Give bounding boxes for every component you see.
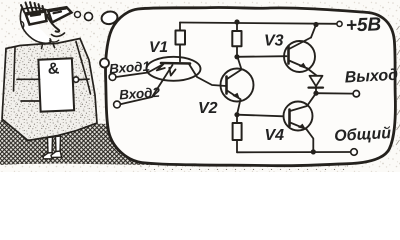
transistor V1 (multi-emitter) — [147, 57, 201, 81]
left leg — [48, 137, 53, 153]
thought bubble chain — [75, 10, 119, 25]
thought bubble (speech balloon) — [106, 7, 396, 165]
svg-text:Общий: Общий — [334, 125, 392, 145]
wire V3 collector to top rail — [311, 25, 316, 38]
transistor V3 — [284, 38, 315, 73]
left sleeve seam — [14, 48, 16, 92]
shadow speckles under bubble — [140, 158, 348, 170]
diode VD1 — [309, 76, 324, 93]
node A — [234, 54, 239, 59]
wire node B to V4 base — [237, 115, 284, 117]
head outline — [20, 9, 51, 43]
resistor R1 — [176, 23, 186, 62]
node D — [311, 149, 316, 154]
transistor V4 — [284, 102, 313, 131]
terminal output — [353, 91, 359, 97]
chin crease — [50, 40, 59, 42]
wire node C to V4 collector — [290, 93, 316, 111]
glasses brow shading — [27, 8, 66, 14]
neck — [42, 44, 55, 49]
hatch scratches right of bubble — [396, 26, 400, 145]
svg-text:V4: V4 — [265, 127, 285, 144]
glasses right lens — [48, 7, 72, 22]
wire node C to output terminal — [316, 92, 353, 94]
wire input1 to V1 emitter — [116, 64, 164, 77]
left foot — [43, 153, 53, 159]
hair — [21, 2, 44, 12]
logic gate on shirt — [38, 58, 74, 111]
gate inversion bubble — [73, 77, 78, 82]
resistor R3 — [233, 115, 242, 153]
terminal input 1 — [109, 74, 116, 81]
junction top rail / R2 — [234, 19, 239, 24]
wire bottom rail — [237, 151, 351, 153]
transistor V2 — [221, 69, 254, 102]
junction top rail / V3 — [313, 22, 318, 27]
svg-text:Выход: Выход — [344, 67, 398, 87]
resistor R2 — [232, 22, 241, 57]
svg-text:&: & — [47, 60, 60, 78]
eyes — [31, 12, 61, 16]
wire input2 to V1 emitter — [120, 65, 172, 104]
cartoon engineer — [2, 2, 97, 159]
glasses left lens — [26, 11, 47, 25]
wire V2 emitter down to node B — [237, 99, 241, 114]
forehead — [22, 8, 47, 10]
right foot — [51, 151, 62, 157]
coat — [2, 39, 97, 141]
wire V3 emitter to diode — [308, 69, 317, 76]
glasses bridge — [46, 14, 49, 17]
node B — [234, 112, 239, 117]
ground texture left patch — [0, 120, 24, 165]
terminal input 2 — [114, 101, 121, 108]
wire V4 emitter to node D — [307, 129, 314, 152]
mouth smile — [52, 33, 65, 36]
right sleeve seam — [76, 42, 91, 95]
svg-text:V3: V3 — [264, 33, 284, 50]
ear — [22, 22, 24, 29]
gate input pins — [17, 79, 40, 101]
right leg — [56, 136, 61, 152]
svg-text:V2: V2 — [198, 100, 218, 117]
wire +5V top rail — [180, 23, 337, 24]
terminal +5V — [337, 21, 342, 26]
gate output pin — [79, 78, 89, 80]
small bubble bump on left edge — [100, 59, 109, 68]
V1 emitter1 arrow — [157, 65, 165, 71]
svg-text:V1: V1 — [149, 39, 168, 56]
svg-text:+5В: +5В — [345, 14, 381, 36]
wire node A to V3 base — [237, 55, 287, 58]
V1 emitter2 arrow — [169, 68, 175, 76]
terminal common — [351, 149, 358, 156]
node C (output junction) — [313, 91, 318, 96]
wire V2 collector up to node A — [238, 57, 242, 70]
ground texture band around legs — [20, 123, 152, 165]
wire V1 collector to V2 base — [189, 64, 226, 86]
nose — [47, 16, 59, 32]
